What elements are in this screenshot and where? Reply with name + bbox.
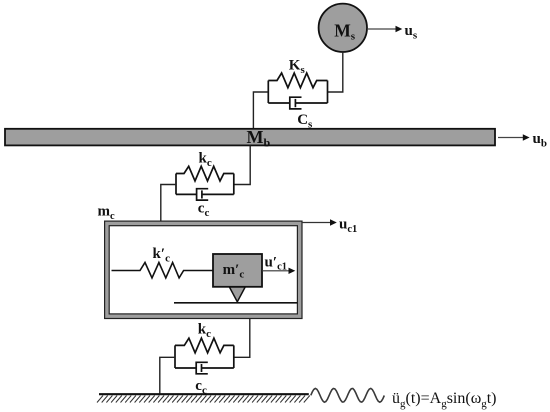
mass Ms xyxy=(319,4,367,52)
ground motion sine wave xyxy=(311,388,385,402)
spring k'c (inner) xyxy=(112,263,214,278)
arrow ub xyxy=(498,131,547,150)
spring kc (bottom) xyxy=(175,338,234,353)
label ground excitation formula xyxy=(392,390,497,410)
wire middle block to box mc xyxy=(161,185,176,222)
block kc/cc frame (middle) xyxy=(175,174,177,195)
arrow us xyxy=(368,23,418,42)
wire bottom block to ground xyxy=(160,357,175,394)
label cc (middle) xyxy=(198,201,210,220)
block kc/cc frame (bottom) xyxy=(174,345,176,368)
label kc (middle) xyxy=(199,151,212,170)
label kc (bottom) xyxy=(198,322,211,341)
arrow u'c1 xyxy=(262,255,295,275)
label cc (bottom) xyxy=(195,378,207,397)
frame box mc xyxy=(105,221,302,318)
label Ks xyxy=(289,58,306,77)
spring kc (middle) xyxy=(176,166,234,181)
friction wedge xyxy=(229,287,245,302)
wire box mc to bottom block xyxy=(234,319,250,358)
wire Ms to block xyxy=(328,52,343,92)
damper Cs xyxy=(268,97,327,109)
label k'c xyxy=(153,246,171,265)
wire block to bar Mb xyxy=(253,92,268,129)
label Cs xyxy=(297,112,313,131)
label mc xyxy=(98,204,116,223)
arrow uc1 xyxy=(302,217,357,236)
friction surface line xyxy=(174,302,297,304)
spring Ks xyxy=(268,73,327,88)
mass m'c xyxy=(213,254,262,287)
damper cc (bottom) xyxy=(175,362,234,374)
ground xyxy=(97,394,310,402)
damper cc (middle) xyxy=(176,189,234,200)
bar Mb (beam) xyxy=(5,127,495,150)
block Ks/Cs frame (left and right edges) xyxy=(267,81,269,104)
wire bar to middle block xyxy=(234,146,250,185)
